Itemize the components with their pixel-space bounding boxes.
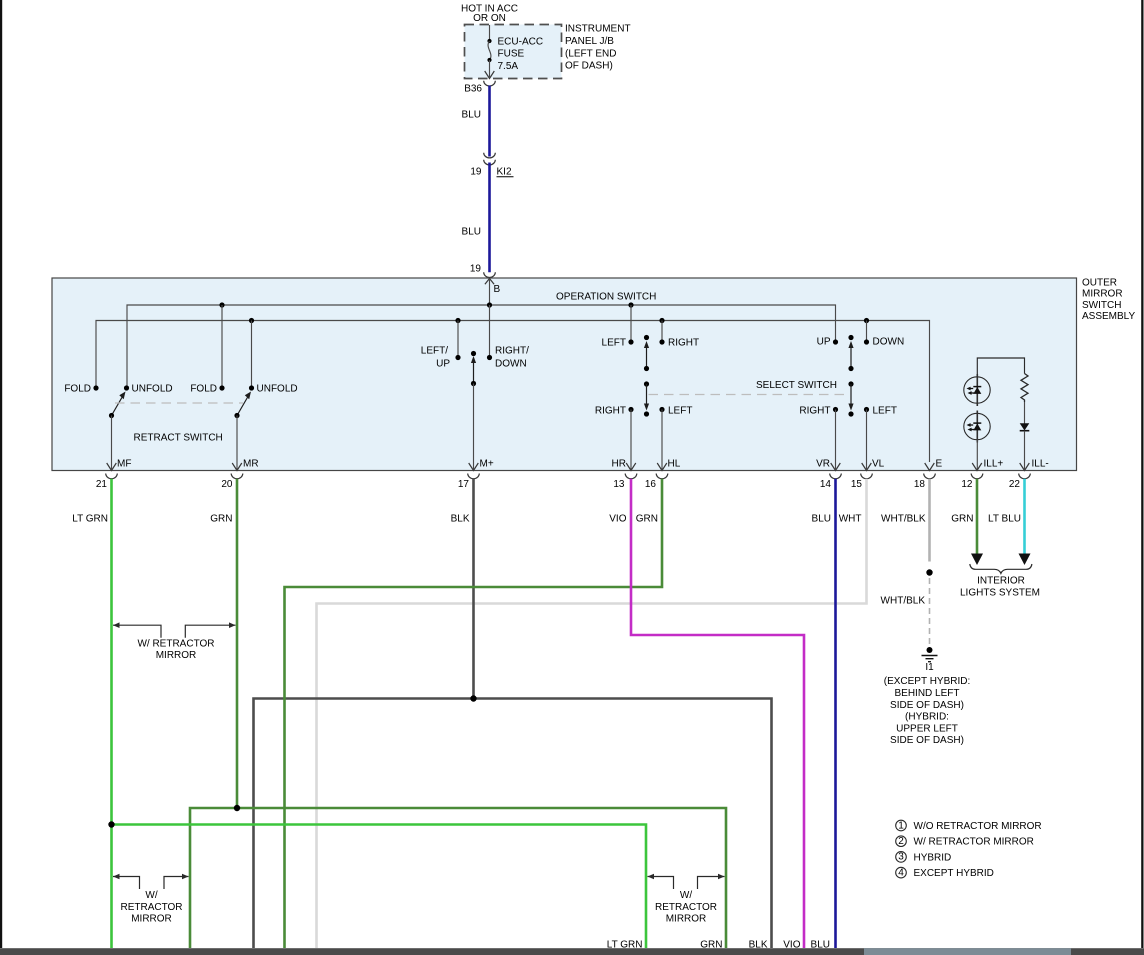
wire GRN pin20 branch (190, 808, 726, 948)
svg-text:INSTRUMENT: INSTRUMENT (565, 24, 631, 35)
bottom scrollbar track (0, 948, 1144, 955)
svg-text:LEFT: LEFT (602, 338, 626, 349)
svg-text:MR: MR (243, 459, 259, 470)
svg-text:OPERATION SWITCH: OPERATION SWITCH (556, 292, 656, 303)
page right border (1141, 0, 1143, 948)
select switch B bottom-right contact (LEFT) (864, 407, 869, 412)
instrument panel J/B dashed box (465, 25, 562, 79)
wire LT GRN pin21 (110, 479, 113, 948)
wire BLK branch (254, 699, 772, 949)
junction node LT GRN (108, 821, 114, 827)
svg-text:15: 15 (851, 479, 863, 490)
svg-text:12: 12 (961, 479, 973, 490)
svg-text:19: 19 (470, 167, 482, 178)
connector pin 12 (971, 474, 983, 479)
connector B36 (484, 81, 496, 86)
svg-text:MF: MF (117, 459, 131, 470)
wire HR output (630, 410, 632, 470)
svg-text:BLK: BLK (451, 514, 470, 525)
svg-text:W/O RETRACTOR MIRROR: W/O RETRACTOR MIRROR (914, 821, 1042, 832)
svg-text:PANEL J/B: PANEL J/B (565, 36, 614, 47)
retract switch 2 unfold contact wire (251, 321, 253, 389)
svg-text:20: 20 (221, 479, 233, 490)
junction on bus2 at right contact (659, 318, 664, 323)
LED D2 (964, 413, 990, 439)
junction on bus2 at left/up (455, 318, 460, 323)
svg-text:OF DASH): OF DASH) (565, 61, 613, 72)
svg-text:HL: HL (668, 459, 681, 470)
svg-text:(HYBRID:: (HYBRID: (905, 712, 949, 723)
junction on bus2 at down contact (864, 318, 869, 323)
wire ILL- output (1024, 431, 1026, 469)
svg-text:21: 21 (96, 479, 108, 490)
svg-text:UP: UP (817, 337, 831, 348)
svg-text:I1: I1 (925, 662, 934, 673)
variant marker W/ RETRACTOR MIRROR (lower middle) (648, 877, 674, 890)
interior lights system label (960, 576, 1040, 599)
select switch gang dashed link (649, 394, 850, 396)
svg-text:LT GRN: LT GRN (72, 514, 108, 525)
LED D1 (964, 377, 990, 403)
svg-text:B36: B36 (464, 84, 482, 95)
svg-text:SIDE OF DASH): SIDE OF DASH) (890, 735, 964, 746)
junction on bus1 at left contact (628, 302, 633, 307)
junction node on BLK (470, 695, 476, 701)
svg-text:RETRACTOR: RETRACTOR (120, 902, 182, 913)
junction node on WHT/BLK (926, 569, 932, 575)
box name label (1082, 278, 1135, 323)
svg-text:SELECT SWITCH: SELECT SWITCH (756, 380, 837, 391)
svg-text:HYBRID: HYBRID (914, 852, 952, 863)
wire E output (from bus2) (925, 463, 935, 471)
retract switch 1 fold contact (93, 385, 98, 390)
svg-text:RIGHT: RIGHT (595, 406, 626, 417)
resistor R1 (1021, 374, 1028, 403)
select switch B bottom-left contact (RIGHT) (833, 407, 838, 412)
svg-text:4: 4 (898, 867, 904, 878)
pin B entry arrow (485, 279, 494, 285)
retract switch 1 arm (112, 397, 123, 416)
svg-text:WHT/BLK: WHT/BLK (881, 596, 926, 607)
connector pin 21 (106, 474, 118, 479)
svg-text:MIRROR: MIRROR (156, 650, 197, 661)
svg-text:MIRROR: MIRROR (131, 914, 172, 925)
connector pin 18 (924, 474, 936, 479)
select switch B top-right contact (DOWN) (866, 321, 868, 343)
svg-text:W/ RETRACTOR: W/ RETRACTOR (137, 639, 214, 650)
junction node GRN (234, 805, 240, 811)
wire M+ output (473, 384, 475, 470)
variant marker W/ RETRACTOR MIRROR (pins 21-20) (113, 625, 161, 638)
wire WHT/BLK pin18 (928, 479, 931, 562)
connector KI2 (in-line) (484, 153, 496, 158)
connector at pin B (484, 272, 496, 277)
retract switch 1 unfold contact (124, 385, 129, 390)
wire resistor to diode (1024, 402, 1026, 424)
wire fuse output with arrow (489, 60, 491, 77)
svg-text:GRN: GRN (951, 514, 973, 525)
svg-text:BEHIND LEFT: BEHIND LEFT (894, 688, 959, 699)
select switch A bottom-right contact (LEFT) (659, 407, 664, 412)
page left border (0, 0, 2, 948)
select switch A top-left contact (LEFT) (630, 305, 632, 342)
svg-text:M+: M+ (480, 459, 494, 470)
wire BLU from KI2 to switch assembly (488, 163, 491, 273)
svg-text:13: 13 (613, 479, 625, 490)
retract switch 2 fold contact wire (221, 305, 223, 388)
wire BLK pin17 (472, 479, 475, 699)
svg-text:RIGHT/: RIGHT/ (495, 346, 529, 357)
svg-text:VR: VR (816, 459, 830, 470)
select switch A bottom-left contact (RIGHT) (628, 407, 633, 412)
legend note 2 (896, 836, 907, 847)
bus wire 2 (lower) (96, 321, 930, 463)
dashed wire to ground (929, 578, 931, 646)
svg-text:RIGHT: RIGHT (799, 406, 830, 417)
svg-text:ECU-ACC: ECU-ACC (498, 37, 544, 48)
retract switch 2 fold contact (219, 385, 224, 390)
wire LT GRN branch (112, 825, 647, 949)
svg-text:22: 22 (1009, 479, 1021, 490)
svg-text:BLU: BLU (462, 110, 481, 121)
svg-text:LEFT/: LEFT/ (421, 346, 448, 357)
junction on bus1 at B (487, 302, 492, 307)
wire GRN pin16 (285, 479, 663, 948)
connector pin 13 (625, 474, 637, 479)
wire GRN pin12 (976, 479, 979, 554)
ground location note (884, 676, 971, 746)
connector pin 14 (830, 474, 842, 479)
wire LT BLU pin22 (1023, 479, 1026, 554)
svg-text:FUSE: FUSE (498, 49, 525, 60)
M+ switch arm (471, 351, 476, 356)
svg-text:2: 2 (898, 836, 904, 847)
retract switch 2 arm (237, 397, 248, 416)
svg-text:OUTER: OUTER (1082, 278, 1117, 289)
svg-text:INTERIOR: INTERIOR (977, 576, 1025, 587)
svg-text:UP: UP (436, 359, 450, 370)
svg-text:LEFT: LEFT (668, 406, 692, 417)
wire VIO pin13 (631, 479, 804, 948)
svg-text:WHT: WHT (839, 514, 862, 525)
junction on bus2 at unfold2 (249, 318, 254, 323)
svg-text:RIGHT: RIGHT (668, 338, 699, 349)
svg-text:ILL+: ILL+ (984, 459, 1004, 470)
svg-text:7.5A: 7.5A (498, 61, 519, 72)
svg-text:KI2: KI2 (497, 167, 512, 178)
svg-text:(LEFT END: (LEFT END (565, 49, 617, 60)
wire from HOT IN ACC into fuse (489, 25, 491, 41)
interior lights arrow LT BLU (1019, 554, 1031, 566)
connector pin 16 (656, 474, 668, 479)
wire B to bus (489, 279, 491, 306)
svg-text:WHT/BLK: WHT/BLK (881, 514, 926, 525)
svg-text:HR: HR (612, 459, 626, 470)
wire MR output (236, 416, 238, 470)
retract switch 2 unfold contact (249, 385, 254, 390)
wire ILL+ output (976, 440, 978, 469)
illumination top wire (977, 358, 1024, 377)
legend note 3 (896, 852, 907, 863)
connector pin 15 (861, 474, 873, 479)
svg-text:DOWN: DOWN (873, 337, 905, 348)
outer mirror switch assembly box (52, 278, 1077, 471)
svg-text:MIRROR: MIRROR (1082, 289, 1123, 300)
power source label HOT IN ACC OR ON (461, 4, 518, 25)
svg-text:W/: W/ (145, 890, 157, 901)
bottom scrollbar thumb (864, 948, 1071, 955)
svg-text:14: 14 (820, 479, 832, 490)
svg-text:VL: VL (872, 459, 885, 470)
connector pin 22 (1019, 474, 1031, 479)
svg-text:18: 18 (914, 479, 926, 490)
svg-text:RETRACTOR: RETRACTOR (655, 902, 717, 913)
svg-text:B: B (494, 284, 501, 295)
select switch A arm (644, 335, 649, 340)
svg-text:1: 1 (898, 820, 904, 831)
svg-text:LIGHTS SYSTEM: LIGHTS SYSTEM (960, 588, 1040, 599)
svg-text:GRN: GRN (210, 514, 232, 525)
connector pin 17 (468, 474, 480, 479)
interior lights arrow GRN (971, 554, 983, 566)
right/down contact (489, 305, 491, 358)
svg-text:BLU: BLU (812, 514, 831, 525)
select switch B top-left contact (UP) (833, 339, 838, 344)
ground I1 (927, 647, 933, 653)
svg-text:OR ON: OR ON (473, 13, 506, 24)
wire MF output (111, 416, 113, 470)
svg-text:16: 16 (645, 479, 657, 490)
svg-text:E: E (936, 459, 943, 470)
svg-text:W/: W/ (680, 890, 692, 901)
diode D3 (1020, 423, 1030, 430)
retract switch gang dashed link (115, 402, 243, 404)
svg-text:19: 19 (470, 264, 482, 275)
wire HL output (661, 410, 663, 470)
instrument panel J/B label (565, 24, 631, 72)
wire VL output (866, 410, 868, 470)
bus wire 1 (upper) (127, 305, 836, 388)
legend note 4 (896, 867, 907, 878)
interior lights system brace (970, 564, 1032, 573)
svg-text:EXCEPT HYBRID: EXCEPT HYBRID (914, 868, 994, 879)
wire GRN pin20 (236, 479, 239, 808)
svg-text:W/ RETRACTOR MIRROR: W/ RETRACTOR MIRROR (914, 837, 1034, 848)
variant marker W/ RETRACTOR MIRROR (lower left) (113, 877, 140, 890)
svg-text:ASSEMBLY: ASSEMBLY (1082, 311, 1135, 322)
fuse ECU-ACC 7.5A (487, 39, 491, 62)
connector pin 20 (231, 474, 243, 479)
svg-text:MIRROR: MIRROR (666, 914, 707, 925)
fuse value label (498, 37, 544, 73)
svg-text:UNFOLD: UNFOLD (257, 384, 298, 395)
svg-text:UPPER LEFT: UPPER LEFT (896, 724, 958, 735)
left/up contact (457, 321, 459, 358)
svg-text:SIDE OF DASH): SIDE OF DASH) (890, 700, 964, 711)
svg-text:BLU: BLU (462, 227, 481, 238)
select switch B arm (848, 335, 853, 340)
svg-text:ILL-: ILL- (1032, 459, 1049, 470)
wire VR output (835, 410, 837, 470)
select switch A top-right contact (RIGHT) (661, 321, 663, 343)
svg-text:LT BLU: LT BLU (988, 514, 1021, 525)
svg-text:DOWN: DOWN (495, 359, 527, 370)
svg-text:RETRACT SWITCH: RETRACT SWITCH (134, 433, 223, 444)
svg-text:UNFOLD: UNFOLD (132, 384, 173, 395)
svg-text:FOLD: FOLD (64, 384, 91, 395)
svg-text:FOLD: FOLD (190, 384, 217, 395)
svg-text:3: 3 (898, 852, 904, 863)
svg-text:SWITCH: SWITCH (1082, 300, 1121, 311)
svg-text:LEFT: LEFT (873, 406, 897, 417)
legend note 1 (896, 820, 907, 831)
wire BLU pin14 (834, 479, 837, 948)
wire WHT pin15 (317, 479, 867, 948)
svg-text:GRN: GRN (636, 514, 658, 525)
svg-text:VIO: VIO (609, 514, 626, 525)
junction on bus1 at fold2 (219, 302, 224, 307)
svg-text:17: 17 (458, 479, 470, 490)
wire BLU from B36 to KI2 (488, 86, 491, 157)
svg-text:(EXCEPT HYBRID:: (EXCEPT HYBRID: (884, 676, 971, 687)
